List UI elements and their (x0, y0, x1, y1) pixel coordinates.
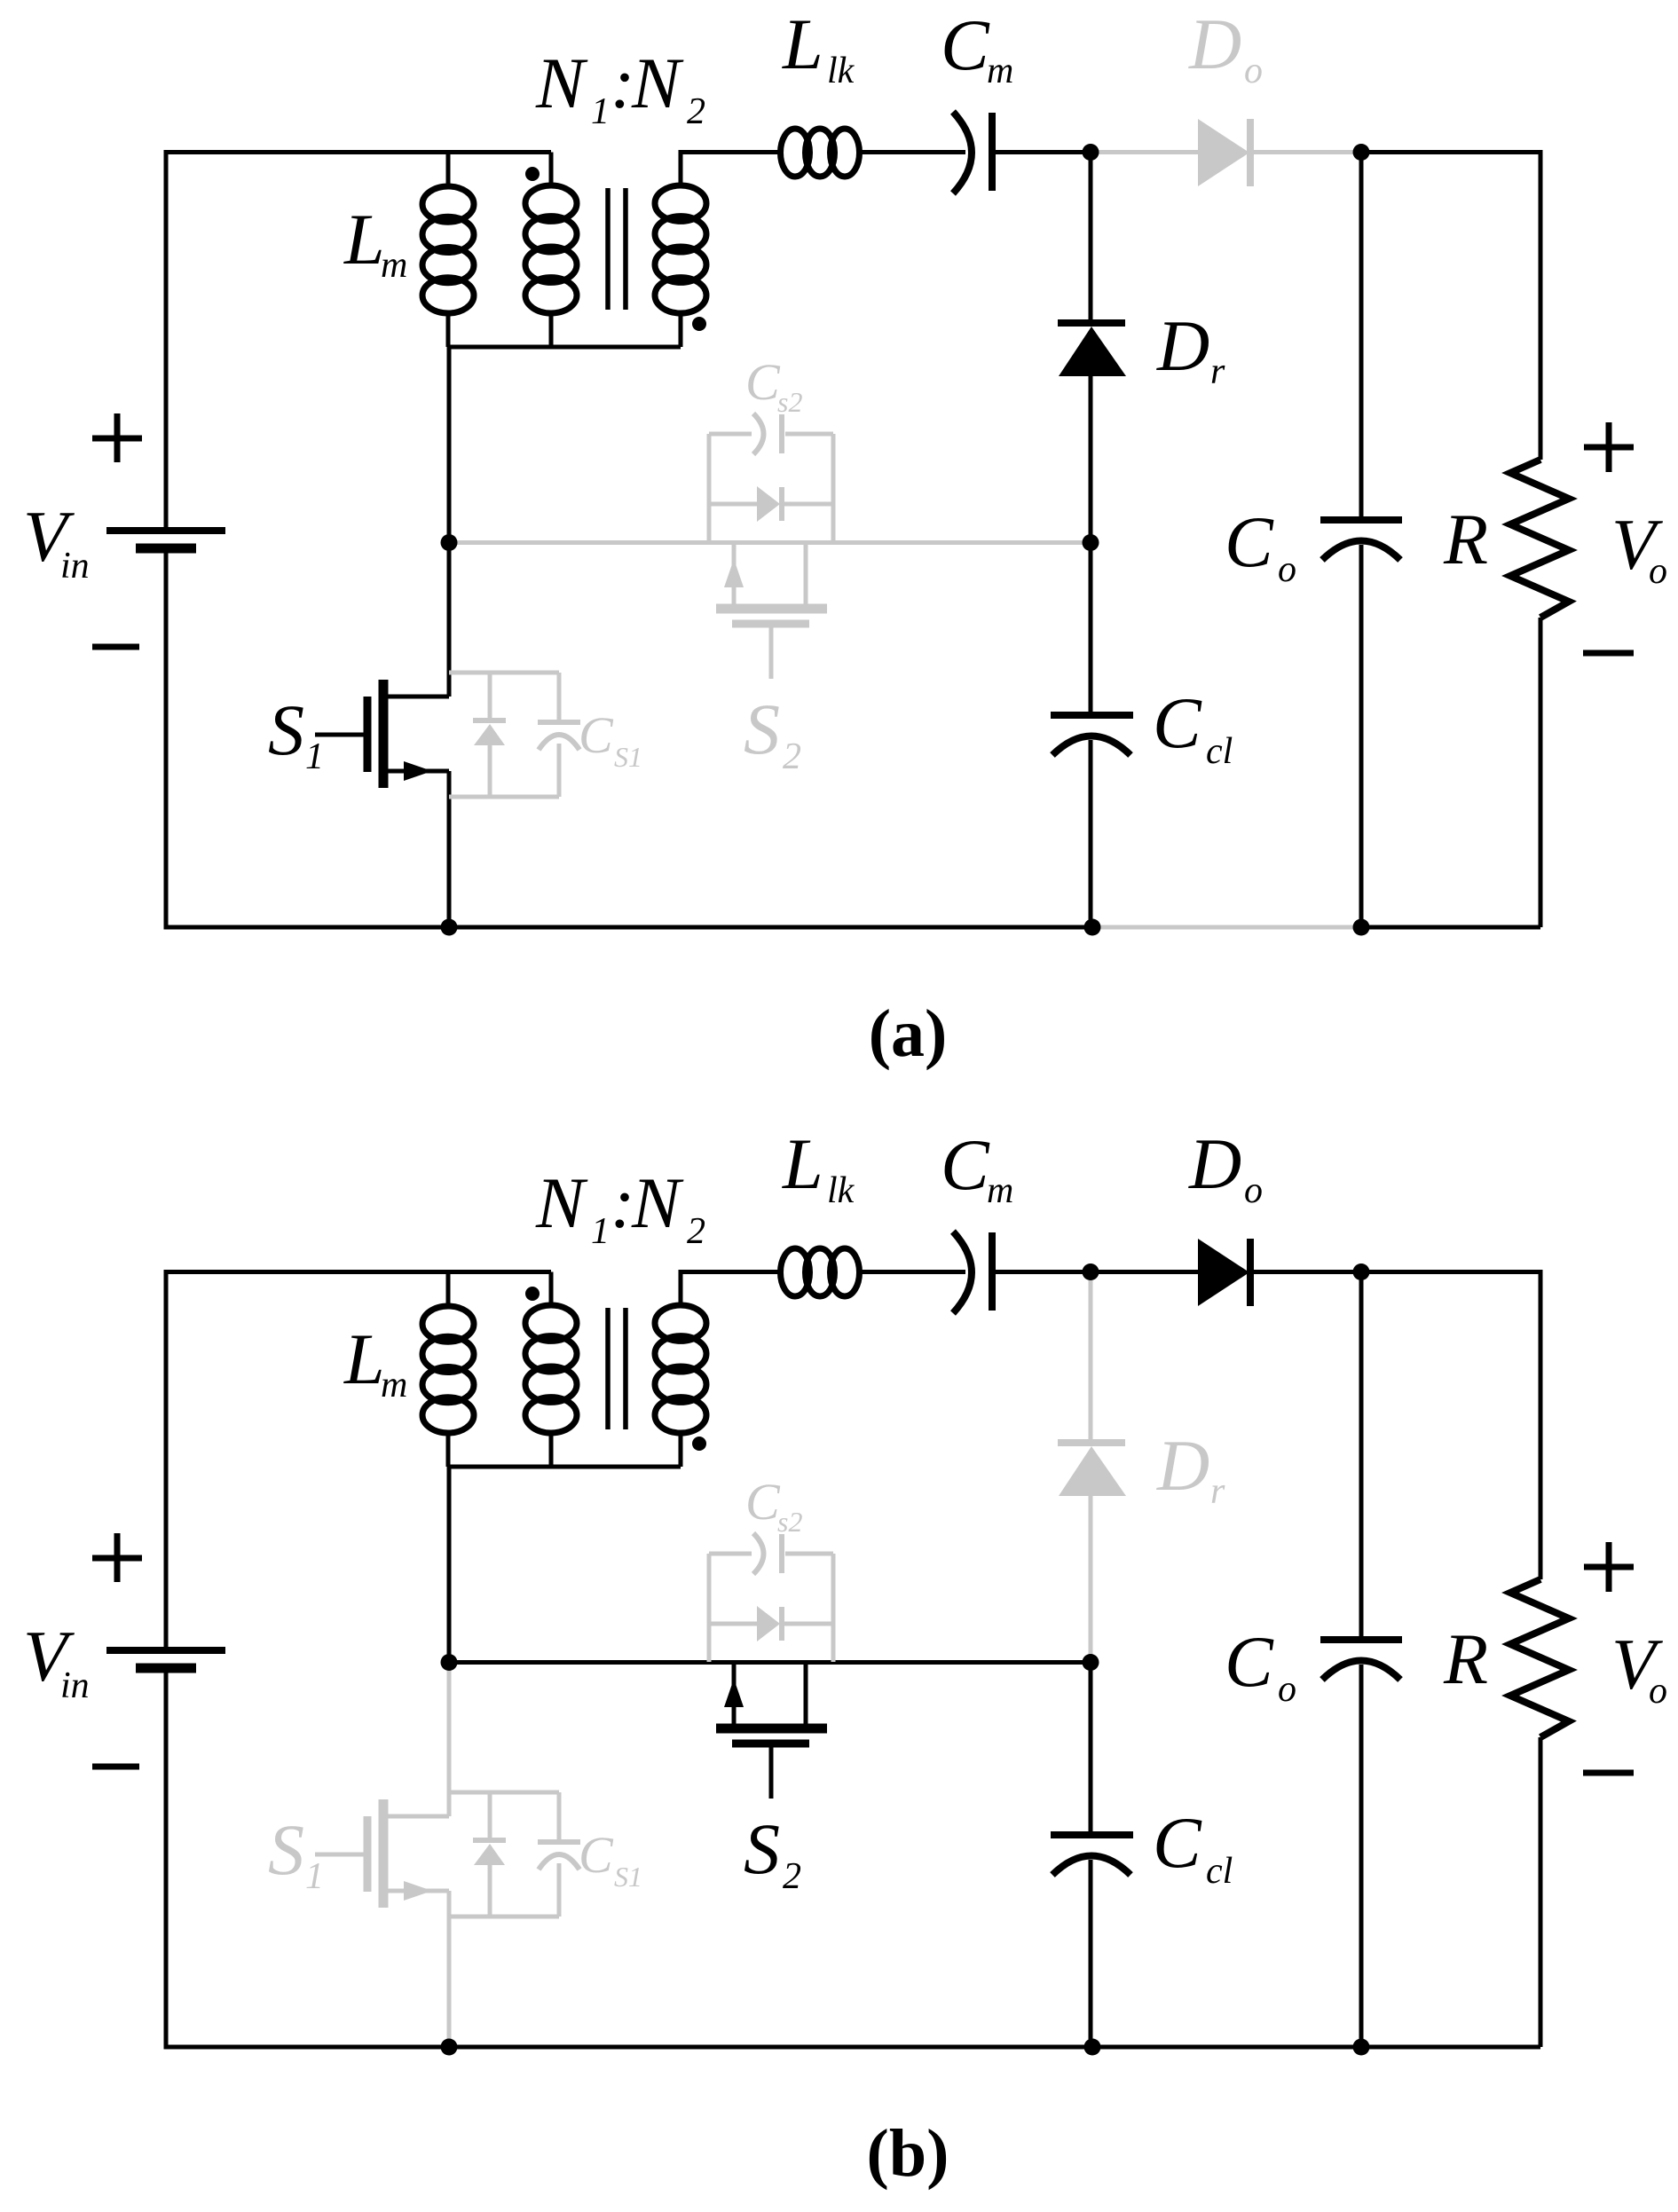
transformer core (608, 1308, 626, 1429)
transistor S1 channel bar (379, 1799, 389, 1908)
polarity dot secondary N2 (692, 1437, 706, 1451)
wire node A to S2 to node D (449, 1660, 1091, 1665)
wire S2 body diode row left (709, 1622, 757, 1626)
wire Cs2 row right (785, 432, 833, 437)
wire S1 source to ground bus (447, 771, 452, 927)
svg-text:D: D (1188, 4, 1241, 84)
node D junction (1083, 1654, 1099, 1671)
transistor S1 drain lead (383, 695, 449, 699)
capacitor Cs2 curved plate (753, 1533, 764, 1574)
wire S2 body diode row right (784, 502, 833, 507)
svg-text:S: S (268, 1809, 304, 1890)
svg-text:m: m (381, 245, 407, 286)
wire Dr anode down to node D (1089, 376, 1093, 543)
svg-text:D: D (1188, 1123, 1241, 1204)
resistor R load (1510, 1579, 1569, 1737)
diode Dr cathode bar (1058, 1439, 1125, 1446)
transformer N1 primary winding (525, 1305, 577, 1433)
svg-text:C: C (941, 4, 990, 85)
wire Lm top connection (446, 153, 451, 190)
wire Cs2 row right (785, 1552, 833, 1556)
svg-text:C: C (745, 1473, 781, 1531)
transistor S1 channel bar (379, 680, 389, 788)
wire secondary top to Llk (681, 153, 781, 189)
transistor S2 gate lead (769, 624, 774, 679)
wire Lm bottom to bus (446, 1430, 451, 1467)
wire S1 body diode branch upper (488, 1792, 492, 1838)
capacitor Cm curved plate (953, 112, 972, 193)
wire node D down to Ccl (1089, 543, 1093, 712)
plus sign Vo polarity (1584, 1542, 1634, 1592)
battery Vin positive plate (106, 527, 225, 534)
wire ground bus Co node to R (1361, 925, 1540, 930)
wire Do cathode to node C (1254, 1270, 1361, 1274)
svg-text:S: S (268, 689, 304, 770)
wire ground bus Co node to R (1361, 2045, 1540, 2050)
inductor Llk leakage inductance (781, 1248, 860, 1296)
wire Llk to Cm (858, 1270, 965, 1274)
wire node B down to Dr cathode (1089, 1272, 1093, 1440)
wire node C down to Co (1359, 1272, 1364, 1638)
wire node B to Do anode (1091, 1270, 1198, 1274)
wire S2 body diode row right (784, 1622, 833, 1626)
svg-text:L: L (782, 4, 823, 84)
svg-text:2: 2 (687, 1211, 705, 1252)
svg-text:C: C (1225, 1621, 1274, 1702)
transistor S2 channel bar (716, 1724, 827, 1734)
wire input bottom rail (Vin- to ground bus) (166, 1668, 1092, 2047)
transistor S2 gate bar (732, 1740, 809, 1748)
wire Ccl to ground bus (1089, 740, 1093, 927)
node C junction (1353, 144, 1370, 161)
wire primary bottom to bus (549, 311, 554, 347)
wire Cs1 box bottom (449, 795, 559, 799)
svg-text:2: 2 (783, 736, 801, 777)
wire input top-left rail (Vin+ to transformer) (166, 1272, 551, 1651)
svg-text:N: N (535, 1162, 588, 1243)
diode Dr cathode bar (1058, 319, 1125, 327)
svg-text:N: N (631, 43, 684, 123)
plus sign Vin polarity (92, 413, 142, 462)
wire node C to load R top (1361, 153, 1540, 461)
svg-text:L: L (343, 199, 385, 279)
wire bus down to node A (447, 1467, 452, 1663)
svg-text:o: o (1244, 1170, 1263, 1211)
svg-text:1: 1 (305, 736, 324, 777)
diode Dr clamp diode (1059, 1446, 1126, 1496)
diode S2 body diode (757, 486, 780, 522)
node F junction ground bus (1084, 2039, 1101, 2056)
svg-text:lk: lk (827, 51, 855, 91)
wire Lm top connection (446, 1272, 451, 1310)
plus sign Vin polarity (92, 1533, 142, 1582)
capacitor Co top plate (1320, 1636, 1402, 1643)
wire transformer bottom bus (448, 345, 681, 350)
transistor S2 arrow (724, 1679, 744, 1707)
diode Dr clamp diode (1059, 327, 1126, 376)
transformer N1 primary winding (525, 185, 577, 313)
svg-text:(a): (a) (869, 996, 948, 1071)
svg-text:r: r (1210, 1471, 1225, 1512)
diode S2 body diode cathode bar (779, 1607, 784, 1641)
svg-text:1: 1 (591, 1211, 610, 1252)
wire node A to S2 to node D (449, 540, 1091, 545)
transistor S1 gate lead (315, 1853, 367, 1857)
capacitor Cs1 curved plate (539, 1854, 579, 1870)
capacitor Cs1 top plate (538, 1839, 580, 1845)
wire Cs2 box verticals (709, 434, 833, 542)
svg-text:cl: cl (1206, 731, 1233, 772)
inductor Llk leakage inductance (781, 129, 860, 177)
capacitor Co curved plate (1322, 1661, 1400, 1681)
wire secondary top to Llk (681, 1272, 781, 1309)
svg-text:C: C (1153, 682, 1202, 763)
node A junction (441, 534, 458, 551)
wire Cs1 box bottom (449, 1915, 559, 1919)
svg-text:C: C (1225, 501, 1274, 582)
diode S1 body diode cathode bar (473, 1838, 506, 1843)
wire S1 body diode branch upper (488, 673, 492, 718)
minus sign Vin polarity (92, 644, 139, 650)
wire S1 source to ground bus (447, 1891, 452, 2047)
svg-text:in: in (60, 546, 90, 586)
battery Vin positive plate (106, 1647, 225, 1654)
battery Vin negative plate (136, 1664, 196, 1673)
svg-text:(b): (b) (867, 2116, 949, 2191)
wire Cs1 branch upper (557, 673, 562, 720)
wire Dr anode down to node D (1089, 1496, 1093, 1663)
svg-text:C: C (579, 706, 614, 764)
svg-text:2: 2 (783, 1856, 801, 1897)
wire Cs1 branch lower (557, 744, 562, 797)
svg-text:R: R (1443, 499, 1488, 579)
node D junction (1083, 534, 1099, 551)
wire R bottom to ground bus (1539, 1737, 1543, 2047)
minus sign Vo polarity (1583, 1770, 1634, 1776)
svg-text:D: D (1156, 1425, 1209, 1506)
wire node C down to Co (1359, 153, 1364, 518)
wire secondary bottom to bus (679, 1430, 683, 1467)
transistor S1 gate bar (364, 697, 372, 772)
transistor S1 source lead (383, 769, 449, 774)
wire bus down to node A (447, 347, 452, 543)
svg-text:S1: S1 (614, 1861, 642, 1893)
wire ground bus Ccl node to Co node (1092, 925, 1361, 930)
svg-text:N: N (631, 1162, 684, 1243)
svg-text:R: R (1443, 1618, 1488, 1699)
wire node B down to Dr cathode (1089, 153, 1093, 320)
transistor S1 source lead (383, 1889, 449, 1893)
diode Do cathode bar (1247, 119, 1254, 186)
node G junction ground bus (1353, 2039, 1370, 2056)
svg-text:1: 1 (305, 1856, 324, 1897)
svg-text:D: D (1156, 305, 1209, 386)
svg-text:C: C (1153, 1802, 1202, 1883)
svg-text:2: 2 (687, 91, 705, 132)
svg-text:r: r (1210, 351, 1225, 392)
capacitor Co curved plate (1322, 541, 1400, 561)
transistor S1 arrow (404, 761, 432, 781)
svg-text:lk: lk (827, 1170, 855, 1211)
wire R bottom to ground bus (1539, 618, 1543, 927)
wire Cs1 branch lower (557, 1863, 562, 1917)
wire Cs2 box verticals (709, 1554, 833, 1662)
diode S2 body diode (757, 1606, 780, 1641)
battery Vin negative plate (136, 544, 196, 554)
transistor S1 gate bar (364, 1816, 372, 1892)
svg-text:N: N (535, 43, 588, 123)
capacitor Cm curved plate (953, 1232, 972, 1313)
wire S1 body diode branch lower (488, 1865, 492, 1917)
wire Do cathode to node C (1254, 150, 1361, 154)
capacitor Ccl top plate (1051, 1831, 1133, 1838)
transistor S2 arrow (724, 559, 744, 587)
wire transformer primary top connection (549, 153, 554, 189)
svg-text:1: 1 (591, 91, 610, 132)
capacitor Ccl curved plate (1052, 736, 1130, 756)
svg-text:o: o (1649, 551, 1667, 592)
transistor S2 channel bar (716, 604, 827, 614)
wire Cs2 row left (709, 432, 752, 437)
capacitor Cs2 straight plate (779, 1534, 784, 1573)
transistor S1 gate lead (315, 733, 367, 737)
transformer core (608, 188, 626, 310)
svg-text:C: C (579, 1826, 614, 1884)
svg-text:o: o (1278, 1669, 1296, 1710)
wire secondary bottom to bus (679, 311, 683, 347)
capacitor Cs2 curved plate (753, 413, 764, 454)
diode Do output diode (1198, 1239, 1249, 1306)
wire Cs2 row left (709, 1552, 752, 1556)
wire Cs1 box top (449, 671, 559, 675)
wire node D down to Ccl (1089, 1663, 1093, 1832)
wire input top-left rail (Vin+ to transformer) (166, 153, 551, 531)
svg-text:o: o (1244, 51, 1263, 91)
svg-text:m: m (381, 1365, 407, 1405)
capacitor Cs2 straight plate (779, 414, 784, 453)
svg-text:o: o (1278, 549, 1296, 590)
capacitor Ccl curved plate (1052, 1856, 1130, 1876)
polarity dot primary N1 (525, 167, 540, 181)
node E junction ground bus (441, 919, 458, 936)
capacitor Cs1 top plate (538, 720, 580, 725)
wire node B to Do anode (1091, 150, 1198, 154)
capacitor Co top plate (1320, 516, 1402, 523)
svg-text:cl: cl (1206, 1851, 1233, 1892)
transistor S1 arrow (404, 1881, 432, 1901)
transformer N2 secondary winding (655, 1305, 706, 1433)
minus sign Vo polarity (1583, 650, 1634, 657)
wire Cs1 branch upper (557, 1792, 562, 1839)
wire Cm to node B (996, 150, 1091, 154)
wire Co to ground bus (1359, 1665, 1364, 2047)
svg-text:s2: s2 (777, 386, 802, 418)
plus sign Vo polarity (1584, 422, 1634, 472)
svg-text:m: m (987, 1170, 1013, 1211)
polarity dot primary N1 (525, 1287, 540, 1301)
wire primary bottom to bus (549, 1430, 554, 1467)
node G junction ground bus (1353, 919, 1370, 936)
node B junction (1083, 1263, 1099, 1280)
transistor S2 source lead (804, 1663, 808, 1729)
diode Do cathode bar (1247, 1239, 1254, 1306)
node E junction ground bus (441, 2039, 458, 2056)
transistor S2 drain lead (732, 543, 737, 610)
node A junction (441, 1654, 458, 1671)
svg-text:C: C (745, 353, 781, 411)
capacitor Cs1 curved plate (539, 735, 579, 750)
transformer N2 secondary winding (655, 185, 706, 313)
capacitor Cm straight plate (989, 1232, 996, 1311)
wire transformer primary top connection (549, 1272, 554, 1309)
svg-text:S1: S1 (614, 741, 642, 773)
minus sign Vin polarity (92, 1764, 139, 1770)
capacitor Ccl top plate (1051, 712, 1133, 719)
svg-text:S: S (744, 689, 780, 769)
wire Llk to Cm (858, 150, 965, 154)
wire ground bus Ccl node to Co node (1092, 2045, 1361, 2050)
diode Do output diode (1198, 119, 1249, 186)
polarity dot secondary N2 (692, 317, 706, 331)
diode S1 body diode (474, 1844, 505, 1865)
svg-text:in: in (60, 1665, 90, 1706)
node F junction ground bus (1084, 919, 1101, 936)
node C junction (1353, 1263, 1370, 1280)
diode S1 body diode cathode bar (473, 718, 506, 723)
node B junction (1083, 144, 1099, 161)
wire Ccl to ground bus (1089, 1860, 1093, 2047)
svg-text:m: m (987, 51, 1013, 91)
inductor Lm magnetizing winding (422, 1306, 474, 1433)
transistor S2 gate lead (769, 1744, 774, 1799)
svg-text:s2: s2 (777, 1506, 802, 1538)
wire Cs1 box top (449, 1791, 559, 1795)
wire node A down to S1 drain (447, 1663, 452, 1817)
svg-text:S: S (744, 1808, 780, 1889)
diode S2 body diode cathode bar (779, 487, 784, 521)
wire node A down to S1 drain (447, 543, 452, 697)
wire S1 body diode branch lower (488, 745, 492, 797)
transistor S2 gate bar (732, 620, 809, 628)
svg-text:L: L (782, 1123, 823, 1204)
resistor R load (1510, 460, 1569, 618)
wire node C to load R top (1361, 1272, 1540, 1580)
inductor Lm magnetizing winding (422, 186, 474, 313)
svg-text:o: o (1649, 1671, 1667, 1712)
transistor S2 drain lead (732, 1663, 737, 1729)
svg-text:L: L (343, 1319, 385, 1399)
wire Lm bottom to bus (446, 311, 451, 347)
diode S1 body diode (474, 724, 505, 745)
wire Co to ground bus (1359, 545, 1364, 927)
wire S2 body diode row left (709, 502, 757, 507)
svg-text:C: C (941, 1124, 990, 1205)
transistor S1 drain lead (383, 1814, 449, 1819)
capacitor Cm straight plate (989, 113, 996, 191)
wire transformer bottom bus (448, 1465, 681, 1469)
wire Cm to node B (996, 1270, 1091, 1274)
wire input bottom rail (Vin- to ground bus) (166, 548, 1092, 927)
transistor S2 source lead (804, 543, 808, 610)
